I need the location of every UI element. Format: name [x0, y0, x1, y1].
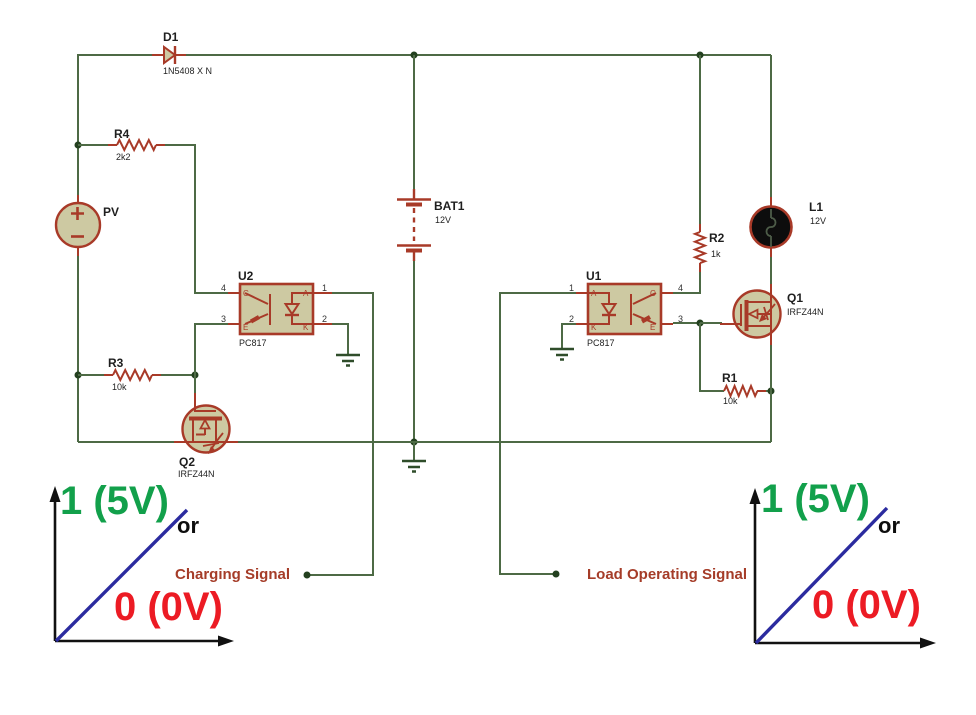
svg-text:L1: L1: [809, 200, 823, 214]
wire: bottom rail: [78, 441, 771, 443]
wire: battery negative down to ground junction: [413, 261, 415, 442]
resistor R2: [695, 224, 705, 272]
node: R3 branch junction on left rail: [75, 372, 82, 379]
wire: Q1 source region of right rail: [770, 336, 772, 391]
battery BAT1: [397, 189, 431, 261]
svg-text:E: E: [243, 323, 248, 332]
wire: R2 bottom to U1 pin 4: [673, 272, 700, 293]
wire: R1 to source junction: [766, 390, 771, 392]
svg-text:C: C: [243, 289, 249, 298]
wire: U2 pin 1 right then down to charging node: [307, 293, 373, 575]
svg-text:K: K: [303, 323, 309, 332]
svg-text:4: 4: [678, 283, 683, 293]
svg-text:12V: 12V: [810, 216, 826, 226]
svg-text:R4: R4: [114, 127, 130, 141]
PV source: [56, 195, 100, 256]
wire: PV cathode down to bottom-left corner: [77, 256, 79, 442]
svg-text:12V: 12V: [435, 215, 451, 225]
wire: U1 pin 2 to ground: [562, 324, 576, 348]
diode D1: [152, 46, 186, 64]
svg-text:10k: 10k: [723, 396, 738, 406]
right axes: x axis: [755, 638, 936, 649]
svg-text:IRFZ44N: IRFZ44N: [787, 307, 824, 317]
wire: junction to R4: [78, 144, 108, 146]
node: load signal terminal: [553, 571, 560, 578]
transistor Q1: [720, 284, 781, 345]
left axes: x axis: [55, 636, 234, 647]
wire: gate junction down to Q2: [194, 375, 196, 395]
node: battery top junction: [411, 52, 418, 59]
svg-text:R1: R1: [722, 371, 738, 385]
svg-text:E: E: [650, 323, 655, 332]
svg-text:or: or: [878, 513, 900, 538]
svg-text:Charging Signal: Charging Signal: [175, 566, 290, 583]
left axes: y axis: [50, 486, 61, 641]
wire: PV anode up left rail to D1 anode: [78, 55, 152, 203]
left axes: blue signal line: [56, 510, 187, 641]
resistor R3: [104, 370, 161, 380]
svg-text:K: K: [591, 323, 597, 332]
optocoupler U1: [576, 284, 673, 334]
right axes: y axis: [750, 488, 761, 643]
right axes: blue signal line: [756, 508, 887, 643]
svg-text:2k2: 2k2: [116, 152, 131, 162]
node: battery ground junction on bottom rail: [411, 439, 418, 446]
svg-text:2: 2: [322, 314, 327, 324]
svg-text:BAT1: BAT1: [434, 199, 465, 213]
wire: source junction down to bottom rail: [770, 391, 772, 442]
wire: D1 cathode along top rail to lamp branch: [186, 54, 771, 56]
wire: U1 pin 3 to Q1 gate junction: [673, 322, 700, 324]
svg-text:PV: PV: [103, 205, 119, 219]
svg-text:C: C: [650, 289, 656, 298]
node: R4 branch junction on left rail: [75, 142, 82, 149]
wire: U1 pin 1 left then down to load node: [500, 293, 576, 574]
svg-text:1: 1: [322, 283, 327, 293]
svg-text:1N5408 X N: 1N5408 X N: [163, 66, 212, 76]
ground: U2 emitter: [336, 355, 360, 366]
svg-text:Q2: Q2: [179, 455, 195, 469]
wire: R3 right to gate junction: [161, 374, 195, 376]
svg-text:1 (5V): 1 (5V): [60, 479, 169, 523]
svg-text:D1: D1: [163, 30, 179, 44]
wire: junction to R3: [78, 374, 104, 376]
svg-text:2: 2: [569, 314, 574, 324]
wire: U2 pin 2 to ground: [332, 324, 348, 354]
svg-text:4: 4: [221, 283, 226, 293]
svg-text:A: A: [303, 289, 309, 298]
lamp L1: [751, 197, 792, 257]
wire: U2 pin 3 down to gate junction: [195, 324, 228, 375]
resistor R1: [724, 386, 766, 396]
svg-text:0 (0V): 0 (0V): [114, 585, 223, 629]
resistor R4: [108, 140, 165, 150]
wire: top rail right corner down to L1: [770, 55, 772, 197]
wire: R4 to U2 pin 4: [165, 145, 228, 293]
svg-text:IRFZ44N: IRFZ44N: [178, 469, 215, 479]
svg-text:3: 3: [221, 314, 226, 324]
svg-text:1: 1: [569, 283, 574, 293]
svg-text:R2: R2: [709, 231, 725, 245]
svg-text:U1: U1: [586, 269, 602, 283]
svg-text:A: A: [591, 289, 597, 298]
svg-text:Load Operating Signal: Load Operating Signal: [587, 566, 747, 583]
svg-text:0 (0V): 0 (0V): [812, 583, 921, 627]
wire: top rail junction down to R2: [699, 55, 701, 224]
svg-text:10k: 10k: [112, 382, 127, 392]
svg-text:or: or: [177, 513, 199, 538]
ground: battery: [402, 442, 426, 472]
wire: top rail to battery positive: [413, 55, 415, 189]
svg-text:PC817: PC817: [587, 338, 615, 348]
svg-text:R3: R3: [108, 356, 124, 370]
ground: U1 cathode: [550, 349, 574, 360]
node: Q1 source junction: [768, 388, 775, 395]
svg-text:U2: U2: [238, 269, 254, 283]
node: charging signal terminal: [304, 572, 311, 579]
wire: L1 to Q1 drain: [770, 257, 772, 292]
transistor Q2: [174, 393, 238, 454]
node: R2 branch junction: [697, 52, 704, 59]
wire: gate junction to Q1 gate: [700, 322, 722, 324]
node: Q1 gate junction: [697, 320, 704, 327]
svg-text:1 (5V): 1 (5V): [761, 477, 870, 521]
wire: gate junction down to R1: [700, 323, 724, 391]
svg-text:1k: 1k: [711, 249, 721, 259]
optocoupler U2: [228, 284, 332, 334]
svg-text:Q1: Q1: [787, 291, 803, 305]
node: Q2 gate junction: [192, 372, 199, 379]
svg-text:PC817: PC817: [239, 338, 267, 348]
